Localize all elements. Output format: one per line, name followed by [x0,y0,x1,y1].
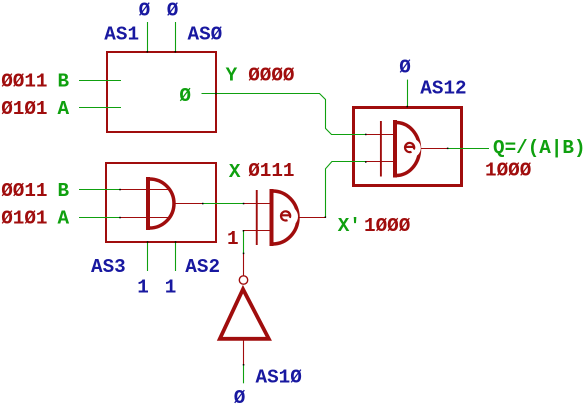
svg-text:AS3: AS3 [91,256,126,278]
svg-text:AS12: AS12 [420,77,466,99]
svg-text:Ø: Ø [179,85,191,107]
svg-text:ØØ11: ØØ11 [1,180,47,202]
svg-text:AS1: AS1 [104,23,139,45]
svg-text:Ø1Ø1: Ø1Ø1 [1,98,47,120]
svg-text:A: A [58,98,70,120]
svg-text:Ø1Ø1: Ø1Ø1 [1,208,47,230]
svg-text:Ø: Ø [167,0,179,22]
svg-text:Ø: Ø [234,387,246,405]
svg-text:ØØ11: ØØ11 [1,71,47,93]
svg-text:B: B [58,71,70,93]
svg-text:A: A [58,208,70,230]
svg-text:1: 1 [227,228,239,250]
svg-text:ASØ: ASØ [188,23,223,45]
svg-text:1: 1 [165,277,177,299]
svg-text:AS1Ø: AS1Ø [256,367,303,389]
svg-text:Ø111: Ø111 [248,160,294,182]
svg-text:X: X [229,161,241,183]
svg-text:Y: Y [226,65,238,87]
svg-text:Q=/(A|B): Q=/(A|B) [493,137,586,159]
svg-text:1ØØØ: 1ØØØ [364,215,411,237]
svg-text:1: 1 [137,277,149,299]
svg-text:ØØØØ: ØØØØ [248,65,295,87]
svg-text:AS2: AS2 [185,256,220,278]
svg-text:Ø: Ø [399,57,411,79]
svg-text:1ØØØ: 1ØØØ [485,160,532,182]
svg-text:X': X' [338,215,361,237]
svg-text:Ø: Ø [139,0,151,22]
svg-text:B: B [58,180,70,202]
